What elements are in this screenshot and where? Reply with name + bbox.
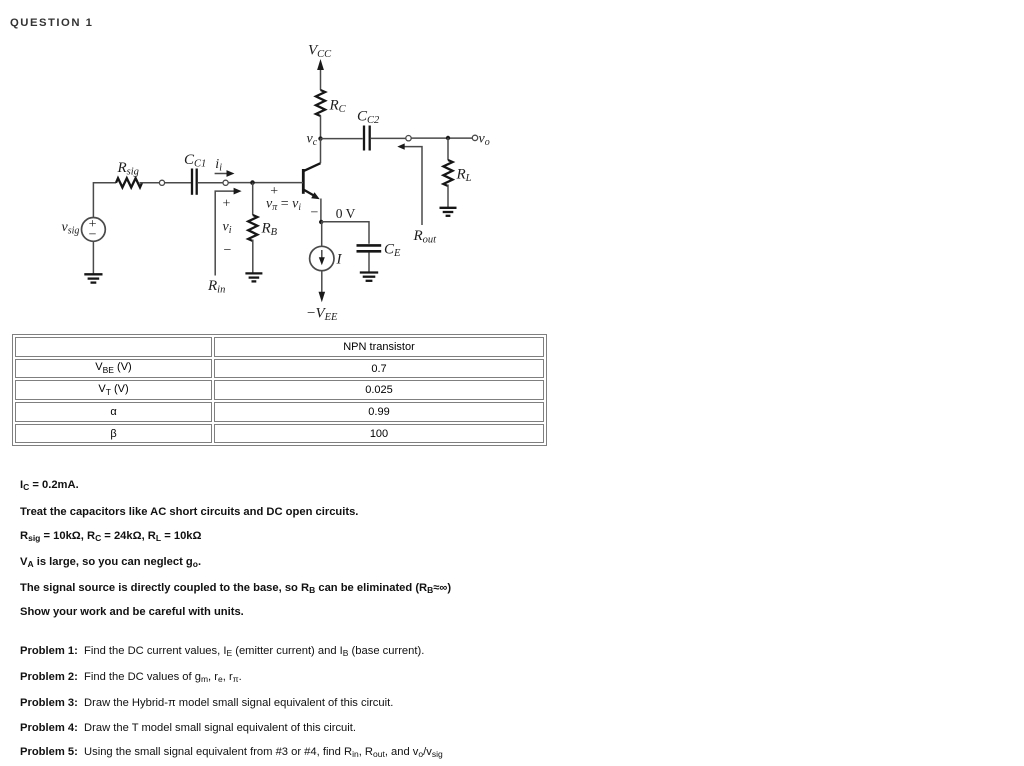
wire current source to -VEE arrow: [319, 271, 326, 303]
svg-text:CE: CE: [384, 241, 401, 258]
svg-text:−: −: [311, 205, 319, 220]
wire node to RB: [252, 183, 254, 215]
body text: [20, 479, 79, 491]
capacitor CC2: [364, 126, 370, 151]
wire CE to ground: [368, 253, 370, 272]
svg-text:vi: vi: [223, 220, 232, 237]
capacitor CE: [357, 245, 382, 251]
node vc: [318, 136, 322, 140]
svg-text:vπ = vi: vπ = vi: [266, 197, 301, 214]
node base / RB junction: [250, 180, 255, 185]
wire emitter node to CE: [321, 222, 369, 244]
wire node to RL: [447, 138, 449, 160]
question header: [10, 17, 93, 29]
node emitter: [319, 220, 323, 224]
ground under vsig: [84, 274, 102, 282]
svg-text:CC2: CC2: [357, 109, 380, 127]
transistor Q1 collector stroke: [304, 163, 321, 171]
open terminal circle vo: [472, 135, 477, 140]
ground under RB: [245, 273, 262, 281]
svg-text:−VEE: −VEE: [307, 306, 338, 324]
resistor RC: [316, 90, 325, 116]
svg-text:−: −: [89, 228, 97, 243]
wire RC to vc: [320, 116, 322, 139]
open terminal circle after CC2: [406, 136, 411, 141]
svg-text:RL: RL: [456, 167, 472, 185]
wire emitter down to node: [320, 199, 322, 223]
svg-text:Rout: Rout: [413, 228, 438, 246]
ground under CE: [360, 273, 378, 281]
open terminal circle after Rsig: [159, 180, 164, 185]
svg-text:vc: vc: [307, 132, 318, 149]
wire vsig to ground: [92, 241, 94, 273]
wire collector to vc: [320, 139, 322, 164]
wire emitter node to current source: [321, 222, 323, 246]
resistor Rsig: [116, 178, 142, 187]
wire to RL node: [411, 137, 472, 139]
svg-text:CC1: CC1: [184, 152, 206, 170]
resistor RL: [443, 160, 452, 186]
wire Rsig to circle: [140, 182, 160, 184]
transistor Q1 base bar: [302, 169, 305, 194]
svg-text:I: I: [336, 252, 343, 268]
svg-text:RB: RB: [261, 221, 278, 239]
source vsig: [82, 218, 106, 242]
wire CC1 to base circle: [198, 182, 223, 184]
svg-text:VCC: VCC: [308, 43, 332, 61]
resistor RB: [248, 215, 257, 241]
svg-text:+: +: [223, 196, 231, 211]
svg-text:vsig: vsig: [62, 220, 80, 237]
svg-text:−: −: [224, 243, 232, 258]
transistor Q1 emitter stroke with arrow: [304, 190, 320, 199]
wire input circle to base: [228, 182, 303, 184]
svg-text:Rin: Rin: [207, 278, 225, 296]
parameters table: [12, 334, 547, 446]
wire RB to ground: [252, 240, 254, 273]
wire circle to CC1: [165, 182, 191, 184]
wire CC2 to output circle: [371, 137, 406, 139]
svg-text:Rsig: Rsig: [117, 160, 139, 178]
current arrow ii: [215, 170, 235, 177]
wire vc to CC2: [321, 138, 363, 140]
svg-text:ii: ii: [215, 157, 222, 174]
capacitor CC1: [192, 169, 197, 195]
ground under RL: [440, 208, 457, 216]
svg-text:RC: RC: [329, 98, 347, 116]
node RL junction: [446, 136, 450, 140]
Rin bracket with arrow: [215, 188, 241, 276]
open terminal circle input: [223, 180, 228, 185]
wire RL to ground: [447, 185, 449, 208]
svg-text:vo: vo: [479, 132, 490, 149]
current source I: [310, 246, 334, 270]
VCC supply arrow: [317, 59, 324, 90]
Rout measurement arrow: [397, 143, 422, 225]
svg-text:0 V: 0 V: [336, 206, 356, 221]
wire vsig to Rsig: [93, 183, 116, 218]
